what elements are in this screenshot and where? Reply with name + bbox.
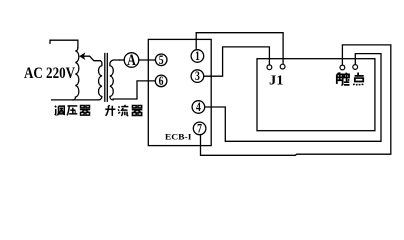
- 点: [354, 72, 364, 85]
- svg-text:1: 1: [195, 50, 200, 63]
- terminal 3: [191, 70, 204, 83]
- svg-text:4: 4: [196, 101, 201, 114]
- wire: AC top lead to variac top: [50, 40, 78, 47]
- svg-text:7: 7: [197, 122, 202, 135]
- wire: terminal 3 to J1 left: [204, 47, 270, 76]
- 压: [67, 106, 77, 116]
- wire: AC bottom bus: [52, 99, 99, 101]
- label 升流器 (under T2): [105, 105, 142, 116]
- variac wiper arrow: [83, 56, 100, 61]
- label 触点 (inside big box): [337, 72, 364, 85]
- wire: secondary top to ammeter: [120, 59, 125, 61]
- svg-text:J1: J1: [269, 74, 284, 89]
- contact terminal posts (触点): [340, 65, 345, 70]
- 器: [80, 105, 90, 115]
- ECB-1 box: [148, 39, 211, 145]
- svg-text:ECB-I: ECB-I: [165, 133, 192, 142]
- 触: [337, 72, 350, 85]
- svg-text:6: 6: [159, 75, 164, 88]
- J1 terminal posts: [267, 65, 272, 70]
- big test-object box: [257, 59, 375, 131]
- 升: [105, 105, 115, 116]
- 器: [132, 106, 143, 116]
- 流: [118, 105, 128, 116]
- transformer T1 variac winding (调压器): [73, 48, 79, 100]
- label 调压器 (under T1): [55, 105, 91, 115]
- transformer T2 secondary winding (升流器 right): [110, 60, 120, 100]
- wire: terminal 7 to contact left: [201, 45, 391, 155]
- wire: terminal 1 to J1 right: [196, 33, 283, 64]
- wire: terminal 4 to contact right: [205, 54, 381, 142]
- terminal 4: [192, 101, 205, 114]
- svg-text:AC 220V: AC 220V: [24, 65, 75, 82]
- wire: ammeter to terminal 5: [139, 59, 156, 61]
- svg-text:A: A: [127, 53, 136, 70]
- svg-text:5: 5: [159, 54, 164, 67]
- terminal 1: [191, 50, 204, 63]
- transformer T2 primary winding (升流器 left): [99, 61, 102, 100]
- hand-drawn CJK labels (no CJK font available): [55, 72, 364, 115]
- 调: [55, 106, 65, 116]
- transformer T2 core: [104, 54, 106, 102]
- ammeter A1: [124, 53, 139, 68]
- terminal 6: [155, 75, 167, 87]
- svg-text:3: 3: [195, 70, 200, 83]
- terminal 7: [193, 122, 206, 135]
- terminal 5: [155, 54, 167, 66]
- wire: secondary bottom to terminal 6: [113, 81, 155, 99]
